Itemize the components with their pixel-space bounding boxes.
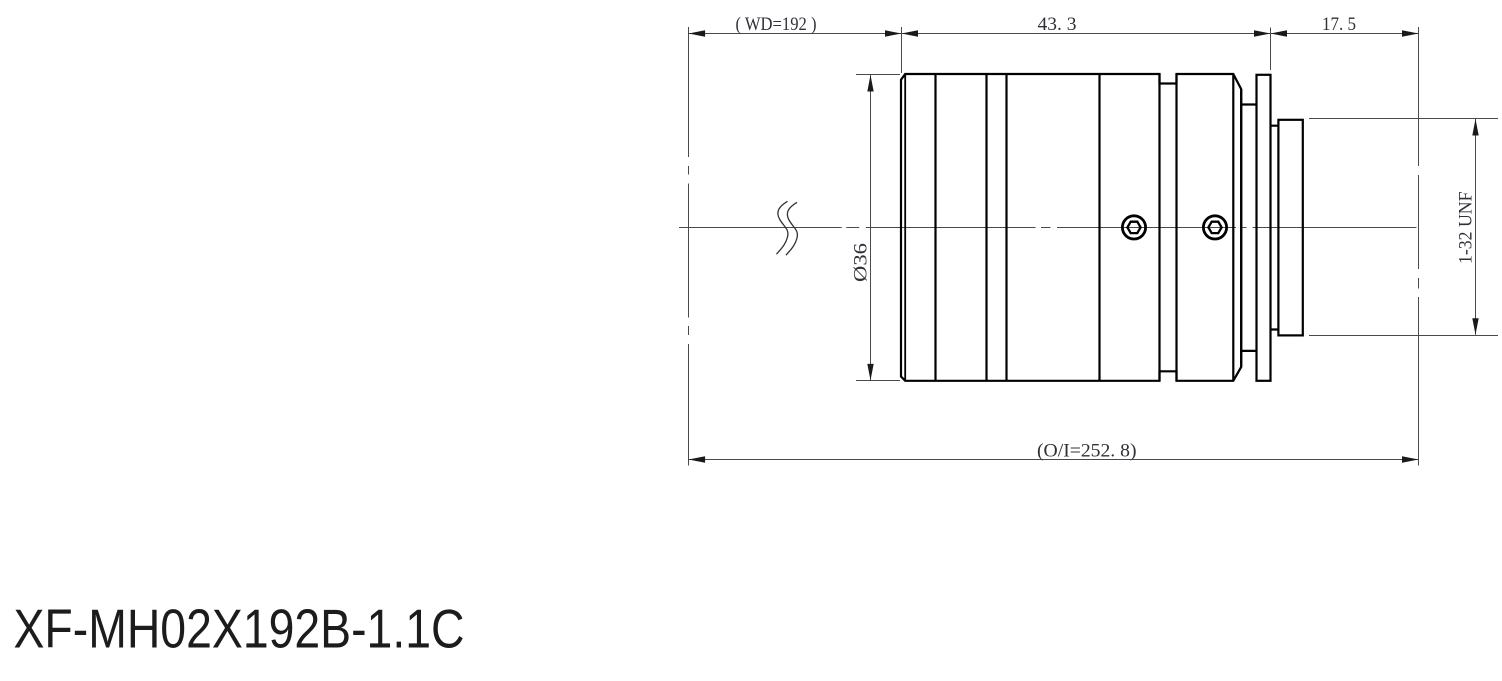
lens main body outline: [901, 74, 1241, 381]
ring divider at x=1099.5: [1098, 74, 1100, 381]
ring divider at x=1006.5: [1005, 74, 1007, 381]
mounting flange plate: [1257, 75, 1271, 381]
svg-text:17. 5: 17. 5: [1322, 14, 1356, 35]
extension lines: rear cylinder diameter: [1309, 119, 1498, 336]
svg-text:( WD=192 ): ( WD=192 ): [736, 14, 817, 35]
dimension 43.3: [902, 30, 1271, 36]
svg-text:43. 3: 43. 3: [1038, 14, 1077, 35]
extension line: lens front face: [901, 27, 903, 73]
groove front edge line at x=1159.5: [1158, 74, 1160, 381]
rear cylinder (1-32 UNF mount): [1278, 120, 1302, 336]
collar ring behind flange: [1271, 126, 1279, 330]
extension line: working distance plane (left): [688, 27, 690, 466]
dimension WD=192: [689, 30, 902, 36]
dimension O/I=252.8: [689, 456, 1419, 462]
groove rear edge line at x=1176.5: [1175, 74, 1177, 381]
svg-text:(O/I=252. 8): (O/I=252. 8): [1037, 441, 1137, 462]
ring divider at x=935.5: [934, 74, 936, 381]
neck between body and flange: [1241, 105, 1256, 351]
body right outline edge at x=1233.3: [1232, 74, 1234, 381]
extension line: flange rear face: [1270, 28, 1272, 71]
dimension 1-32 UNF: [1472, 119, 1478, 335]
centerline (optical axis): [679, 227, 1417, 229]
set screw 1: [1122, 216, 1145, 239]
break symbol (working distance not to scale): [777, 201, 798, 255]
extension line: image plane (right): [1418, 27, 1420, 466]
rear face edge at x=1241.2: [1240, 89, 1242, 367]
dimension diameter 36: [856, 75, 900, 381]
svg-text:1-32 UNF: 1-32 UNF: [1456, 192, 1477, 265]
front chamfer edge line: [904, 74, 906, 381]
svg-text:Ø36: Ø36: [851, 243, 872, 282]
ring divider at x=986.5: [985, 74, 987, 381]
dimension 17.5: [1271, 30, 1419, 36]
set screw 2: [1203, 216, 1226, 239]
svg-text:XF-MH02X192B-1.1C: XF-MH02X192B-1.1C: [14, 598, 465, 660]
